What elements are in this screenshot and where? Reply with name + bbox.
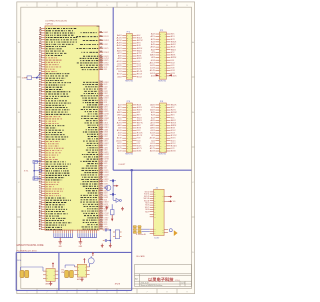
U1 pin 11 (left)	[39, 50, 64, 52]
svg-text:B4X: B4X	[137, 45, 141, 47]
svg-text:31: 31	[39, 95, 42, 97]
svg-text:88: 88	[39, 224, 42, 226]
U1 pin 134 (right), net label	[86, 148, 108, 152]
U1 pin 161 (right), net label	[81, 210, 107, 213]
P2 pins 15/16	[152, 51, 175, 54]
U1 pin 120 (right), net label	[81, 117, 110, 120]
P4 pins 13/14	[150, 119, 175, 122]
U1 pin 149 (right), net label	[80, 182, 108, 186]
U3 pins	[74, 266, 89, 275]
U1 pin 4 (left)	[39, 33, 74, 36]
wire: section divider vertical (net area split)	[112, 8, 114, 171]
title block table	[135, 265, 192, 287]
J1 pin 8	[145, 207, 156, 209]
svg-text:150: 150	[100, 185, 103, 187]
U1 pin 39 (left)	[39, 113, 71, 115]
svg-text:37: 37	[39, 109, 42, 111]
svg-text:129: 129	[100, 138, 103, 140]
svg-text:53: 53	[39, 145, 42, 147]
svg-text:B14X: B14X	[137, 71, 142, 73]
svg-text:110: 110	[100, 95, 103, 97]
P1 pins 29/30	[118, 70, 142, 73]
U1 pin 31 (left)	[39, 95, 70, 97]
U1 pin 46 (left)	[39, 128, 64, 131]
svg-text:B13X: B13X	[137, 69, 141, 71]
svg-text:104x6: 104x6	[136, 234, 146, 236]
transistor Q1	[104, 185, 111, 190]
svg-text:158: 158	[100, 203, 103, 205]
P1 pins 21/22	[117, 60, 141, 63]
U1 pin 123 (right), net label	[88, 124, 110, 127]
U1 pin 147 (right), net label	[81, 177, 109, 181]
op-amp U1 body (CPLD EPM1270T144)	[45, 26, 99, 230]
svg-text:55: 55	[39, 149, 42, 151]
svg-text:138: 138	[100, 158, 103, 160]
P3 pins 29/30	[116, 139, 140, 142]
U1 pin 165 (right), net label	[83, 219, 109, 222]
P1 pins 17/18	[118, 55, 141, 58]
wire Q1 to R8	[111, 204, 113, 209]
svg-text:105: 105	[100, 83, 103, 85]
U1 pin 40 (left)	[39, 114, 61, 117]
U1 pin 129 (right), net label	[88, 138, 110, 141]
U1 pin 135 (right), net label	[88, 151, 110, 154]
svg-text:58: 58	[39, 156, 42, 158]
U1 pin 66 (left)	[39, 174, 70, 176]
J1 pin 5	[144, 200, 156, 202]
svg-text:B15X: B15X	[137, 143, 140, 145]
svg-text:100: 100	[100, 62, 103, 64]
power flag above U3	[83, 258, 85, 263]
svg-text:B7X: B7X	[137, 53, 142, 55]
P4 pins 11/12	[151, 116, 174, 119]
oscillator Y2	[26, 76, 33, 80]
U1 pin 109 (right), net label	[84, 92, 109, 95]
svg-text:123: 123	[100, 124, 103, 126]
zone tick marks	[17, 2, 195, 294]
U1 pin 166 (right), net label	[83, 221, 108, 224]
wire: power section middle divider	[58, 252, 60, 290]
junction at divider corner	[131, 169, 133, 171]
U1 pin 95 (right), net label	[76, 47, 109, 50]
U1 bottom pin 177	[68, 228, 70, 237]
svg-text:160: 160	[100, 208, 103, 210]
svg-text:95: 95	[100, 47, 103, 49]
svg-text:155: 155	[100, 196, 103, 198]
svg-text:B11X: B11X	[171, 62, 175, 64]
U1 pin 2 (left)	[39, 30, 73, 32]
U1 pin 106 (right), net label	[85, 86, 108, 89]
svg-text:SD6: SD6	[145, 205, 149, 207]
svg-text:SD7: SD7	[145, 207, 150, 209]
svg-text:70: 70	[39, 183, 42, 185]
P2 pins 7/8	[151, 40, 176, 43]
svg-text:B10X: B10X	[171, 130, 176, 132]
svg-text:SD5: SD5	[145, 202, 149, 204]
U1 pin 131 (right), net label	[87, 142, 110, 145]
svg-text:B5X: B5X	[171, 117, 175, 119]
capacitor C16	[110, 193, 116, 196]
U1 pin 162 (right), net label	[83, 212, 109, 215]
P2 pins 25/26	[150, 64, 174, 67]
U1 pin 34 (left)	[39, 101, 72, 104]
U1 pin 72 (left)	[39, 188, 64, 190]
svg-text:B8X: B8X	[171, 125, 177, 127]
svg-text:B2X: B2X	[171, 39, 175, 41]
U1 pin 155 (right), net label	[80, 196, 108, 199]
U1 pin 56 (left)	[39, 152, 62, 154]
P1 pins 7/8	[117, 42, 141, 45]
svg-text:13: 13	[39, 54, 42, 56]
svg-text:163: 163	[100, 214, 103, 216]
U1 bottom pin 173	[59, 228, 61, 237]
P2 pins 17/18	[150, 54, 175, 57]
svg-text:87: 87	[39, 222, 42, 224]
svg-text:J1: J1	[155, 187, 158, 189]
sheet background	[0, 0, 210, 297]
svg-text:XT1: XT1	[24, 171, 29, 173]
svg-text:103: 103	[100, 68, 103, 70]
U1 pin 152 (right), net label	[86, 190, 109, 193]
svg-text:HDR17X2: HDR17X2	[158, 154, 166, 156]
U1 pin 145 (right), net label	[81, 173, 110, 177]
U1 pin 107 (right), net label	[84, 88, 108, 91]
svg-text:93: 93	[100, 39, 103, 41]
svg-text:67: 67	[39, 176, 42, 178]
P2 pins 27/28	[150, 67, 174, 70]
P2 pins 3/4	[151, 35, 175, 38]
U1 pin 32 (left)	[39, 97, 59, 99]
svg-text:B10X: B10X	[137, 130, 141, 132]
U1 pin 64 (left)	[39, 169, 69, 172]
svg-text:B14X: B14X	[171, 70, 175, 72]
U1 pin 54 (left)	[39, 146, 64, 149]
svg-text:15: 15	[39, 59, 42, 61]
P2 pins 5/6	[151, 38, 175, 41]
U1 pin 115 (right), net label	[83, 106, 108, 109]
svg-text:B16X: B16X	[137, 145, 142, 147]
svg-text:B6X: B6X	[171, 120, 176, 122]
U1 pin 10 (left)	[39, 48, 62, 50]
P4 pins 29/30	[151, 139, 175, 142]
P2 pins 11/12	[150, 46, 175, 49]
svg-text:128: 128	[100, 135, 103, 137]
junction node a	[112, 180, 114, 182]
svg-text:77: 77	[39, 199, 42, 201]
svg-text:SD2: SD2	[144, 196, 150, 198]
U1 pin 87 (left)	[39, 222, 72, 224]
svg-text:99: 99	[100, 59, 103, 61]
U1 bottom pin 187	[92, 228, 94, 237]
P2 pins 1/2	[151, 33, 175, 36]
U1 pin 17 (left)	[39, 63, 59, 65]
U1 pin 15 (left)	[39, 59, 62, 61]
U1 bottom pin 186	[89, 228, 91, 237]
U1 pin 168 (right), net label	[82, 226, 109, 229]
svg-text:102: 102	[100, 66, 103, 68]
svg-text:56: 56	[39, 152, 42, 154]
junction cap node 2	[109, 240, 111, 242]
svg-text:B2X: B2X	[171, 110, 176, 112]
wire: power section top boundary	[16, 251, 132, 253]
svg-text:122: 122	[100, 122, 103, 124]
P2 pins 33/34	[151, 74, 177, 77]
svg-text:B18X: B18X	[171, 151, 176, 153]
U1 pin 119 (right), net label	[81, 115, 108, 118]
U1 pin 154 (right), net label	[81, 193, 109, 197]
J1 pin 20 (right)	[162, 232, 168, 234]
svg-text:117: 117	[100, 110, 103, 112]
svg-text:POWER-5V 3V3: POWER-5V 3V3	[17, 250, 38, 252]
U1 pin 65 (left)	[39, 172, 70, 174]
power symbol below R8	[111, 215, 113, 222]
U1 pin 71 (left)	[39, 185, 54, 187]
transistor Q3 (near J1)	[169, 229, 172, 232]
svg-text:166: 166	[100, 221, 103, 223]
svg-text:B3X: B3X	[137, 43, 141, 45]
U1 pin 144 (right), net label	[84, 170, 109, 174]
svg-text:106: 106	[100, 86, 103, 88]
svg-text:B1X: B1X	[171, 36, 175, 38]
P4 pins 5/6	[150, 109, 176, 112]
svg-text:97: 97	[100, 55, 103, 57]
svg-text:51: 51	[39, 140, 42, 142]
ground symbol under U1 group 1	[58, 238, 62, 249]
U1 pin 58 (left)	[39, 156, 55, 158]
P1 pins 31/32	[117, 73, 142, 76]
transistor Q4 (3V3 switch)	[88, 256, 94, 267]
U1 pin 53 (left)	[39, 145, 59, 147]
P4 pins 27/28	[150, 137, 176, 140]
regulator U3 body	[77, 264, 86, 277]
P4 pins 35/36	[150, 147, 175, 150]
U1 pin 82 (left)	[39, 210, 65, 212]
J1 pin 19 (right)	[162, 229, 168, 231]
svg-text:B4X: B4X	[171, 44, 176, 46]
wire: bottom bus group 2	[78, 237, 97, 239]
svg-text:127: 127	[100, 133, 103, 135]
svg-text:90: 90	[39, 228, 42, 230]
junction cap node 1	[109, 229, 111, 231]
P1 pins 25/26	[117, 65, 142, 68]
svg-text:107: 107	[100, 88, 103, 90]
wire: U2 input	[21, 267, 44, 271]
U1 pin 103 (right), net label	[82, 68, 108, 71]
P3 pins 1/2	[118, 103, 141, 106]
svg-text:B12X: B12X	[137, 66, 141, 68]
J1 pin 7	[145, 205, 156, 207]
svg-text:109: 109	[100, 92, 103, 94]
U1 pin 44 (left)	[39, 123, 65, 126]
zone labels	[18, 5, 194, 294]
U1 pin 98 (right), net label	[80, 57, 110, 60]
P1 pins 5/6	[117, 39, 143, 42]
sheet outer border frame	[17, 2, 195, 294]
J1 pin 14	[150, 231, 156, 233]
svg-text:135: 135	[100, 151, 103, 153]
P3 pins 25/26	[118, 134, 142, 137]
U1 pin 5 (left)	[39, 36, 77, 38]
P3 pins 7/8	[117, 111, 140, 114]
capacitor U2C2	[25, 270, 29, 277]
junction clock node	[36, 77, 38, 79]
diode D2 (orange)	[174, 230, 178, 236]
svg-text:B10X: B10X	[171, 60, 174, 62]
U1 pin 86 (left)	[39, 219, 64, 221]
svg-text:50: 50	[39, 138, 42, 140]
P2 pins 21/22	[151, 59, 175, 62]
power symbol under U1 group 2	[79, 238, 83, 249]
ground symbol (C20)	[101, 244, 104, 248]
P1 pins 3/4	[116, 36, 142, 39]
P4 pins 17/18	[150, 124, 176, 127]
U1 pin 110 (right), net label	[81, 95, 110, 98]
svg-text:121: 121	[100, 119, 103, 121]
U1 pin 118 (right), net label	[88, 113, 110, 116]
svg-text:B11X: B11X	[171, 133, 175, 135]
svg-text:75: 75	[39, 194, 42, 196]
svg-text:B13X: B13X	[171, 138, 176, 140]
wire: section divider horizontal to right border	[113, 169, 191, 171]
P3 pins 5/6	[118, 109, 142, 112]
U1 pin 88 (left)	[39, 224, 67, 226]
svg-text:29: 29	[39, 91, 42, 93]
U1 pin 14 (left)	[39, 56, 59, 59]
J1 pin 1	[145, 191, 157, 193]
svg-text:B0X: B0X	[137, 104, 141, 106]
wire: cap chain	[112, 180, 114, 200]
svg-text:25: 25	[39, 81, 42, 83]
U1 pin 105 (right), net label	[83, 83, 108, 86]
P4 pins 31/32	[150, 142, 175, 145]
U1 pin 140 (right), net label	[87, 161, 108, 165]
U1 pin 169 (right), net label	[83, 228, 110, 231]
svg-text:156: 156	[100, 199, 103, 201]
power flag above Q4	[92, 252, 94, 256]
U1 pin 63 (left)	[39, 167, 68, 169]
svg-text:27: 27	[39, 86, 42, 88]
U1 pin 113 (right), net label	[83, 101, 108, 104]
svg-text:B15X: B15X	[137, 74, 142, 76]
wire cap join	[109, 230, 111, 243]
U1 pin 52 (left)	[39, 143, 59, 145]
U1 bottom pin 185	[87, 228, 89, 237]
junction crystal node	[33, 170, 35, 172]
P4 pins 23/24	[150, 132, 175, 135]
svg-text:98: 98	[100, 57, 103, 59]
U1 pin 18 (left)	[39, 66, 61, 68]
U1 pin 143 (right), net label	[81, 168, 109, 172]
U1 pin 36 (left)	[39, 106, 68, 108]
power port arrow P2 pin34	[169, 74, 172, 76]
oscillator X2	[113, 230, 122, 239]
U1 bottom pin 188	[94, 228, 96, 237]
svg-text:EPM1270T144C5N-CORE: EPM1270T144C5N-CORE	[17, 244, 44, 247]
U1 pin 42 (left)	[39, 119, 58, 122]
svg-text:B5X: B5X	[137, 117, 142, 119]
U1 pin 16 (left)	[39, 61, 61, 63]
ground symbol (C21)	[109, 243, 112, 248]
U1 pin 160 (right), net label	[87, 208, 108, 211]
svg-text:GND: GND	[79, 246, 82, 248]
svg-text:83: 83	[39, 213, 42, 215]
svg-text:B13X: B13X	[137, 138, 141, 140]
svg-text:B14X: B14X	[137, 140, 141, 142]
J1 pin 10	[145, 211, 156, 213]
J1 pin 6	[145, 202, 156, 204]
P4 pins 3/4	[151, 106, 174, 109]
svg-text:167: 167	[100, 223, 103, 225]
U1 bottom pin 170	[53, 228, 55, 237]
svg-text:SD0: SD0	[145, 191, 150, 193]
svg-text:26: 26	[39, 84, 42, 86]
svg-text:B9X: B9X	[137, 58, 142, 60]
U1 pin 62 (left)	[39, 165, 68, 167]
U1 pin 1 (left)	[39, 27, 77, 29]
svg-text:59: 59	[39, 158, 42, 160]
svg-text:B2X: B2X	[137, 40, 143, 42]
svg-text:B0X: B0X	[171, 34, 175, 36]
svg-text:38: 38	[39, 111, 42, 113]
svg-text:B7X: B7X	[171, 122, 177, 124]
svg-text:115: 115	[100, 106, 103, 108]
svg-text:139: 139	[100, 160, 103, 162]
U1 bottom pin 189	[96, 228, 98, 237]
U1 pin 156 (right), net label	[81, 199, 108, 202]
U2 pins	[43, 271, 58, 280]
svg-text:B1X: B1X	[171, 107, 175, 109]
J1 pin 11	[150, 214, 156, 216]
svg-text:136: 136	[100, 153, 103, 155]
svg-text:SD4: SD4	[144, 200, 150, 202]
U1 pin 83 (left)	[39, 213, 68, 215]
svg-text:5V0: 5V0	[17, 260, 21, 262]
wire: power section left boundary	[15, 252, 17, 290]
U1 pin 148 (right), net label	[83, 179, 109, 183]
svg-text:B8X: B8X	[137, 125, 141, 127]
U1 pin 99 (right), net label	[80, 59, 109, 62]
U1 pin 25 (left)	[39, 81, 72, 83]
U1 pin 3 (left)	[39, 32, 75, 34]
P4 pins 25/26	[151, 134, 176, 137]
svg-text:HDR17X2: HDR17X2	[125, 81, 133, 83]
P1 pins 27/28	[117, 68, 142, 71]
svg-text:159: 159	[100, 205, 103, 207]
P3 pins 33/34	[117, 144, 141, 147]
U1 pin 78 (left)	[39, 201, 67, 203]
P1 pins 15/16	[117, 52, 141, 55]
svg-text:66: 66	[39, 174, 42, 176]
U1 pin 7 (left)	[39, 41, 78, 43]
svg-text:TQFP144: TQFP144	[45, 24, 53, 26]
U1 pin 124 (right), net label	[88, 125, 109, 129]
svg-text:B17X: B17X	[171, 148, 175, 150]
svg-text:86: 86	[39, 219, 42, 221]
U1 pin 37 (left)	[39, 109, 70, 111]
U1 pin 9 (left)	[39, 45, 66, 47]
P4 pins 21/22	[151, 129, 176, 132]
wire: U3 input	[65, 265, 74, 268]
svg-text:91: 91	[100, 31, 103, 33]
U1 pin 112 (right), net label	[83, 99, 108, 102]
capacitor C21	[103, 239, 111, 242]
svg-text:B3X: B3X	[171, 41, 177, 43]
svg-text:GND: GND	[59, 246, 62, 248]
svg-text:SD9: SD9	[145, 211, 149, 213]
svg-text:B3X: B3X	[171, 112, 177, 114]
svg-text:B8X: B8X	[171, 55, 176, 57]
P3 pins 11/12	[118, 116, 142, 119]
